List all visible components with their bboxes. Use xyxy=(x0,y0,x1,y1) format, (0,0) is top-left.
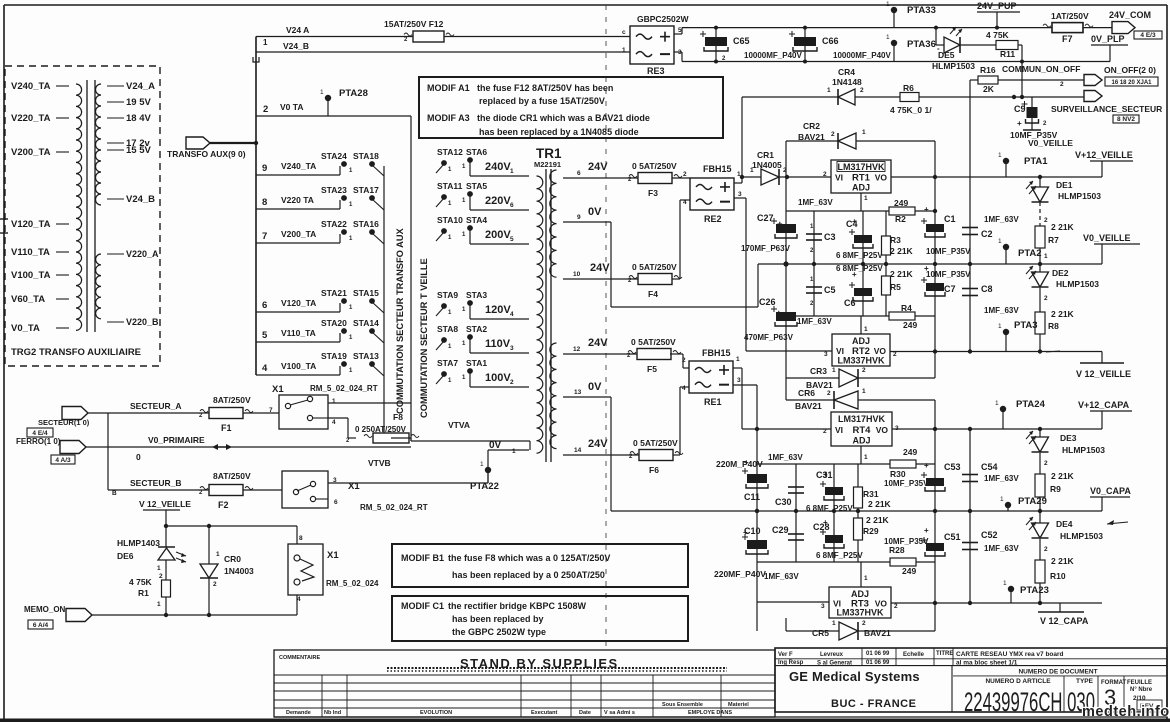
svg-text:F1: F1 xyxy=(221,423,232,433)
svg-text:1: 1 xyxy=(864,195,868,202)
svg-text:15AT/250V F12: 15AT/250V F12 xyxy=(384,19,444,29)
svg-text:10MF_P35V: 10MF_P35V xyxy=(926,247,971,256)
document number 22439976CH 030 xyxy=(964,687,1095,717)
capacitor C30 xyxy=(775,464,804,511)
switch contact STA11 STA5 tap 220V xyxy=(436,181,529,210)
wire F8 to TR1 primary bottom xyxy=(391,420,530,450)
svg-text:2: 2 xyxy=(860,87,864,94)
capacitor C66 10000MF_P40V xyxy=(789,26,891,64)
capacitor C3 1MF_63V xyxy=(798,198,836,264)
svg-text:CR3: CR3 xyxy=(810,366,827,376)
test point PTA29 xyxy=(1000,496,1047,511)
svg-text:24V: 24V xyxy=(588,438,608,450)
svg-text:2 21K: 2 21K xyxy=(890,246,914,256)
LED DE5 HLMP1503 xyxy=(932,26,975,71)
svg-text:FEUILLE: FEUILLE xyxy=(1127,680,1152,686)
svg-text:TRANSFO AUX(9 0): TRANSFO AUX(9 0) xyxy=(167,149,246,159)
svg-text:M22191: M22191 xyxy=(534,160,561,169)
svg-text:13: 13 xyxy=(574,389,582,396)
capacitor C29 xyxy=(764,511,804,581)
diode CR5 BAV21 across RT3 xyxy=(786,603,935,640)
svg-text:DE1: DE1 xyxy=(1056,180,1073,190)
svg-text:STA16: STA16 xyxy=(353,219,379,229)
REV box xyxy=(1137,700,1162,710)
svg-text:Sous Ensemble: Sous Ensemble xyxy=(662,702,703,708)
svg-text:220MF_P40V: 220MF_P40V xyxy=(714,569,766,579)
svg-text:1: 1 xyxy=(512,448,516,455)
svg-text:C26: C26 xyxy=(759,297,776,307)
fuse F7 1AT/250V xyxy=(1043,11,1093,44)
svg-text:2 21K: 2 21K xyxy=(1051,309,1075,319)
label 24V_PUP xyxy=(977,1,1020,30)
diode CR6 BAV21 xyxy=(786,378,935,429)
wire aux tap row V110_TA pin 5 xyxy=(256,328,340,342)
LED DE3 HLMP1503 xyxy=(1026,429,1105,467)
svg-text:6: 6 xyxy=(577,170,581,177)
svg-text:C65: C65 xyxy=(733,36,750,46)
transformer TRG2 dashed outline box xyxy=(5,66,160,366)
svg-text:8: 8 xyxy=(299,535,303,542)
svg-text:F6: F6 xyxy=(649,465,659,475)
svg-text:4: 4 xyxy=(682,385,686,392)
svg-text:STA19: STA19 xyxy=(321,351,347,361)
svg-text:RM_5_02_024_RT: RM_5_02_024_RT xyxy=(360,503,428,512)
switch contact STA23 STA17 xyxy=(321,185,384,210)
resistor R29 2 21K xyxy=(854,511,890,562)
tag 16 18 20 XJA1 xyxy=(1105,77,1158,86)
capacitor C2 1MF_63V xyxy=(962,80,1019,264)
svg-text:2: 2 xyxy=(1060,81,1064,88)
svg-text:2: 2 xyxy=(510,379,514,386)
connector FERRO(1 0) xyxy=(16,437,86,454)
svg-text:V200_TA: V200_TA xyxy=(281,229,316,239)
svg-text:1: 1 xyxy=(886,1,890,8)
svg-text:V24_B: V24_B xyxy=(126,194,155,205)
TR1 primary bottom tap 0V pin 1 xyxy=(488,440,529,483)
svg-text:7: 7 xyxy=(262,231,267,242)
svg-text:24V: 24V xyxy=(588,161,608,173)
svg-text:1: 1 xyxy=(157,565,161,572)
left border centre tick marks xyxy=(0,219,8,233)
svg-text:12: 12 xyxy=(573,346,581,353)
svg-text:has been replaced by a 0 250AT: has been replaced by a 0 250AT/250 xyxy=(452,570,605,580)
capacitor C28 6 8MF_P25V xyxy=(813,511,863,562)
svg-text:B: B xyxy=(112,490,117,497)
svg-text:1: 1 xyxy=(995,400,999,407)
svg-text:Nb Ind: Nb Ind xyxy=(324,710,341,716)
svg-text:STA13: STA13 xyxy=(353,351,379,361)
svg-text:SURVEILLANCE_SECTEUR: SURVEILLANCE_SECTEUR xyxy=(1051,104,1162,114)
svg-text:C1: C1 xyxy=(944,214,956,224)
label V+12_VEILLE xyxy=(1075,150,1133,177)
capacitor C31 6 8MF_P25V xyxy=(806,464,853,513)
svg-text:DE6: DE6 xyxy=(117,551,134,561)
svg-text:STA11: STA11 xyxy=(437,181,463,191)
svg-text:MODIF C1: MODIF C1 xyxy=(401,601,444,611)
svg-text:6 8MF_P25V: 6 8MF_P25V xyxy=(816,551,863,560)
svg-text:N° Nbre: N° Nbre xyxy=(1130,687,1153,693)
svg-text:6: 6 xyxy=(262,300,267,311)
svg-text:STA12: STA12 xyxy=(437,147,463,157)
svg-text:01 06 99: 01 06 99 xyxy=(866,651,890,657)
svg-text:6: 6 xyxy=(510,202,514,209)
svg-text:3: 3 xyxy=(824,351,828,358)
wire aux bus vertical xyxy=(255,37,257,376)
label V 12_VEILLE rail xyxy=(1076,352,1131,380)
svg-text:V100_TA: V100_TA xyxy=(281,361,316,371)
wire V24_B xyxy=(253,41,630,62)
svg-text:STA4: STA4 xyxy=(466,215,487,225)
wire F4 to RE2 input xyxy=(672,200,690,279)
transformer TR1 primary winding xyxy=(537,176,543,453)
wire VTVB xyxy=(328,458,488,483)
svg-text:R30: R30 xyxy=(890,469,906,479)
svg-text:+: + xyxy=(823,518,828,527)
svg-text:+: + xyxy=(1017,119,1022,128)
node R6 output junction xyxy=(1012,95,1016,99)
svg-text:RT4: RT4 xyxy=(853,425,872,436)
capacitor C51 10MF_P35V xyxy=(884,511,961,603)
svg-text:F7: F7 xyxy=(1062,34,1073,44)
TRG2 primary tap V240_TA xyxy=(11,81,69,92)
svg-text:6: 6 xyxy=(334,499,338,506)
svg-text:RE2: RE2 xyxy=(704,214,722,224)
svg-text:V120_TA: V120_TA xyxy=(11,219,51,230)
svg-text:470MF_P63V: 470MF_P63V xyxy=(744,333,794,342)
svg-text:VTVA: VTVA xyxy=(448,420,470,430)
svg-text:1: 1 xyxy=(1044,253,1048,260)
svg-text:STA22: STA22 xyxy=(321,219,347,229)
switch contact STA20 STA14 xyxy=(321,318,384,343)
node VO column junction xyxy=(933,175,937,264)
svg-text:3: 3 xyxy=(510,345,514,352)
TRG2 primary tap V120_TA xyxy=(11,219,69,230)
svg-text:1: 1 xyxy=(998,152,1002,159)
capacitor C52 1MF_63V xyxy=(962,511,1019,603)
svg-text:1MF_63V: 1MF_63V xyxy=(984,306,1019,315)
TR1 secondary tap pin 9 0V centre xyxy=(563,206,758,307)
regulator RT3 LM337HVK xyxy=(821,587,898,618)
transformer TR1 core xyxy=(546,169,551,462)
svg-text:3: 3 xyxy=(821,603,825,610)
svg-text:2: 2 xyxy=(894,603,898,610)
capacitor C9 10MF_P35V xyxy=(1010,97,1058,140)
svg-text:PTA29: PTA29 xyxy=(1018,496,1047,507)
wire RE3 plus output to 24V rail xyxy=(674,28,1119,34)
svg-text:1: 1 xyxy=(736,356,740,363)
TR1 secondary tap pin 13 0V centre xyxy=(563,381,757,511)
svg-text:4 E/4: 4 E/4 xyxy=(32,430,48,437)
label COMMUN_ON_OFF xyxy=(1002,64,1080,88)
svg-text:110V: 110V xyxy=(485,338,511,350)
svg-text:1: 1 xyxy=(750,167,754,174)
svg-text:8AT/250V: 8AT/250V xyxy=(213,395,251,405)
svg-text:2 21K: 2 21K xyxy=(866,515,890,525)
resistor R30 249 xyxy=(890,447,917,479)
svg-text:DE5: DE5 xyxy=(938,50,955,60)
wire standby lamp top rail xyxy=(164,524,303,544)
svg-text:+: + xyxy=(776,308,782,319)
switch contact STA22 STA16 xyxy=(321,219,384,244)
transformer TRG2 primary winding xyxy=(76,84,82,330)
wire RT4 ADJ line xyxy=(757,446,935,464)
transformer TR1 secondary winding lower xyxy=(550,343,557,449)
svg-text:1: 1 xyxy=(864,326,868,333)
svg-text:STA21: STA21 xyxy=(321,288,347,298)
svg-text:SECTEUR_A: SECTEUR_A xyxy=(130,401,181,411)
svg-text:1: 1 xyxy=(622,47,626,54)
svg-text:0V: 0V xyxy=(489,440,502,451)
capacitor C1 10MF_P35V xyxy=(921,205,971,256)
svg-text:ADJ: ADJ xyxy=(852,436,870,446)
svg-text:STA18: STA18 xyxy=(353,151,379,161)
svg-text:R5: R5 xyxy=(890,282,901,292)
svg-text:replaced by a fuse 15AT/250V: replaced by a fuse 15AT/250V xyxy=(479,96,605,106)
svg-text:10MF_P35V: 10MF_P35V xyxy=(926,270,971,279)
svg-text:X1: X1 xyxy=(348,481,360,492)
svg-text:C11: C11 xyxy=(744,492,760,502)
svg-text:al ma bloc sheet 1/1: al ma bloc sheet 1/1 xyxy=(956,660,1018,667)
svg-text:STA24: STA24 xyxy=(321,151,347,161)
svg-text:FERRO(1 0): FERRO(1 0) xyxy=(16,437,61,446)
capacitor C4 6 8MF_P25V xyxy=(836,211,883,264)
svg-text:ADJ: ADJ xyxy=(852,183,870,193)
title block header rows xyxy=(775,648,1167,712)
svg-text:C3: C3 xyxy=(824,232,836,242)
resistor R4 249 xyxy=(889,303,917,330)
svg-text:V 12_CAPA: V 12_CAPA xyxy=(1040,616,1089,626)
svg-text:MODIF B1: MODIF B1 xyxy=(401,553,444,563)
svg-text:MODIF A3: MODIF A3 xyxy=(427,113,470,123)
svg-text:1: 1 xyxy=(862,388,866,395)
TR1 secondary tap pin 12 24V to F5 xyxy=(563,337,637,354)
svg-text:DE3: DE3 xyxy=(1060,433,1077,443)
bridge rectifier RE1 FBH15 xyxy=(682,348,741,407)
wire V24 A into RE3 xyxy=(630,36,632,38)
svg-text:2 21K: 2 21K xyxy=(1051,222,1075,232)
svg-text:NUMERO DE DOCUMENT: NUMERO DE DOCUMENT xyxy=(1018,669,1097,676)
svg-text:1: 1 xyxy=(320,89,324,96)
svg-text:-: - xyxy=(937,44,940,53)
svg-text:C8: C8 xyxy=(981,284,993,294)
svg-text:1: 1 xyxy=(832,620,836,627)
svg-text:249: 249 xyxy=(894,198,908,208)
wire SECTEUR_A row xyxy=(88,413,279,490)
wire X1 upper contact to bus xyxy=(328,403,411,438)
regulator RT2 LM337HVK xyxy=(824,326,897,366)
svg-text:PTA23: PTA23 xyxy=(1020,585,1049,596)
wire aux tap row V240_TA pin 9 xyxy=(256,161,340,175)
connector ON_OFF(2 0) xyxy=(1084,65,1156,86)
svg-text:FBH15: FBH15 xyxy=(702,348,731,358)
LED DE4 HLMP1503 xyxy=(1026,511,1103,553)
svg-text:V+12_CAPA: V+12_CAPA xyxy=(1078,400,1130,410)
svg-text:2: 2 xyxy=(683,171,687,178)
svg-text:0V: 0V xyxy=(588,206,602,218)
svg-text:C30: C30 xyxy=(775,497,792,507)
TRG2 secondary tap 17 2v xyxy=(107,138,150,149)
wire RT2 ADJ line xyxy=(786,316,935,334)
svg-text:EMPLOYE DANS: EMPLOYE DANS xyxy=(688,710,732,716)
svg-text:4: 4 xyxy=(510,311,514,318)
capacitor C26 470MF_P63V xyxy=(744,264,832,351)
svg-text:the GBPC 2502W type: the GBPC 2502W type xyxy=(452,627,546,637)
transformer TR1 secondary winding upper xyxy=(550,170,557,277)
svg-text:249: 249 xyxy=(902,566,916,576)
svg-text:the diode CR1 which was a BAV2: the diode CR1 which was a BAV21 diode xyxy=(477,113,650,123)
svg-text:0 250AT/250V: 0 250AT/250V xyxy=(355,425,407,434)
wire RE2 minus rail down to RT2 xyxy=(734,198,832,351)
svg-text:120V: 120V xyxy=(485,304,511,316)
resistor R1 4 75K xyxy=(129,560,171,615)
svg-text:+: + xyxy=(852,217,857,226)
test point PTA24 xyxy=(995,399,1046,429)
svg-text:c: c xyxy=(622,29,626,36)
transformer TRG2 core xyxy=(87,80,95,332)
wire commutation column A common xyxy=(383,166,385,441)
TRG2 secondary tap V24_A xyxy=(107,81,155,92)
svg-text:STA8: STA8 xyxy=(437,324,458,334)
svg-text:PTA33: PTA33 xyxy=(907,5,936,16)
svg-text:249: 249 xyxy=(903,447,917,457)
bottom border band xyxy=(0,717,1170,722)
svg-text:2 21K: 2 21K xyxy=(868,499,892,509)
transformer TRG2 secondary winding upper xyxy=(96,84,102,205)
svg-text:PTA3: PTA3 xyxy=(1014,320,1038,331)
svg-text:0V: 0V xyxy=(588,381,602,393)
wire RT4 VO to V+12_CAPA rail xyxy=(892,427,1102,431)
TRG2 secondary tap 15 5V xyxy=(107,145,151,156)
test point PTA2 xyxy=(998,238,1042,264)
svg-text:16 18 20 XJA1: 16 18 20 XJA1 xyxy=(1111,80,1152,86)
annotation pen mark near DE4 xyxy=(1046,351,1128,525)
svg-text:VO: VO xyxy=(875,173,888,183)
svg-text:V0_VEILLE: V0_VEILLE xyxy=(1028,138,1073,148)
wire commutation column B common V0 TA xyxy=(410,116,412,441)
svg-text:2: 2 xyxy=(823,428,827,435)
fuse F5 0 5AT/250V xyxy=(627,337,681,374)
svg-text:COMMUTATION SECTEUR T VEILLE: COMMUTATION SECTEUR T VEILLE xyxy=(419,258,429,418)
svg-text:RE3: RE3 xyxy=(647,66,665,76)
svg-text:18 4V: 18 4V xyxy=(126,113,151,124)
svg-text:ON_OFF(2 0): ON_OFF(2 0) xyxy=(1104,65,1156,75)
wire MEMO_ON row xyxy=(92,595,297,617)
svg-text:PTA36: PTA36 xyxy=(907,39,936,50)
wire RE1 plus down to RT4 VI xyxy=(733,368,831,429)
svg-text:R8: R8 xyxy=(1048,321,1059,331)
svg-text:220V: 220V xyxy=(485,195,511,207)
svg-text:2 21K: 2 21K xyxy=(1051,471,1075,481)
svg-text:V0 TA: V0 TA xyxy=(280,102,303,112)
resistor R10 2 21K xyxy=(1035,539,1075,603)
svg-text:PTA28: PTA28 xyxy=(339,88,368,99)
svg-text:F4: F4 xyxy=(648,289,658,299)
wire CR4 R6 row xyxy=(740,97,1084,179)
svg-text:STA9: STA9 xyxy=(437,290,458,300)
tag 4 A/3 xyxy=(51,455,75,464)
reference V0_VEILLE bar at C9 xyxy=(1023,121,1073,148)
svg-text:1: 1 xyxy=(864,575,868,582)
svg-text:5: 5 xyxy=(262,330,268,341)
svg-text:Date: Date xyxy=(579,710,591,716)
resistor R9 2 21K xyxy=(1035,453,1075,511)
svg-text:R10: R10 xyxy=(1050,571,1066,581)
svg-text:1: 1 xyxy=(827,87,831,94)
label V 12_CAPA rail xyxy=(1038,603,1089,626)
svg-text:1: 1 xyxy=(480,461,484,468)
svg-text:4 75K: 4 75K xyxy=(129,577,153,587)
svg-text:R9: R9 xyxy=(1050,484,1061,494)
label 0V_PLP xyxy=(1091,34,1128,62)
TRG2 secondary tap V220_B xyxy=(107,317,159,327)
resistor R6 4 75K_0 1/ xyxy=(890,83,932,115)
svg-text:2: 2 xyxy=(1044,546,1048,553)
svg-text:200V: 200V xyxy=(485,229,511,241)
resistor R5 2 21K xyxy=(882,264,914,316)
switch contact STA19 STA13 xyxy=(321,351,384,376)
svg-text:STA6: STA6 xyxy=(466,147,487,157)
svg-text:Demande: Demande xyxy=(286,710,311,716)
svg-text:1: 1 xyxy=(998,238,1002,245)
wire F6 to RE1 input xyxy=(673,387,689,455)
fuse F12 15AT/250V xyxy=(384,19,454,43)
svg-text:R11: R11 xyxy=(1000,49,1015,59)
svg-text:VO: VO xyxy=(874,346,887,356)
svg-text:1: 1 xyxy=(263,38,268,47)
tag 4 E/4 xyxy=(27,428,53,437)
svg-text:V0_PRIMAIRE: V0_PRIMAIRE xyxy=(148,435,205,445)
fuse F6 0 5AT/250V xyxy=(629,438,683,475)
note box MODIF A1 A3 xyxy=(419,77,723,138)
wire aux tap row V220 TA pin 8 xyxy=(256,195,340,209)
svg-text:24V: 24V xyxy=(590,262,610,274)
svg-text:19 5V: 19 5V xyxy=(126,97,151,108)
switch contact STA24 STA18 xyxy=(321,151,384,176)
svg-text:3: 3 xyxy=(737,377,741,384)
TRG2 secondary tap V220_A xyxy=(107,249,159,259)
svg-text:X1: X1 xyxy=(327,550,339,561)
svg-text:1: 1 xyxy=(832,367,836,374)
svg-text:V+12_VEILLE: V+12_VEILLE xyxy=(1075,150,1133,160)
svg-text:4: 4 xyxy=(683,199,687,206)
svg-text:R7: R7 xyxy=(1048,235,1059,245)
bridge rectifier RE3 GBPC2502W xyxy=(622,14,689,76)
svg-text:V200_TA: V200_TA xyxy=(11,147,51,158)
svg-text:1: 1 xyxy=(1003,580,1007,587)
svg-text:1N4003: 1N4003 xyxy=(224,566,254,576)
TRG2 primary tap V0_TA xyxy=(11,323,69,334)
svg-text:R31: R31 xyxy=(863,489,879,499)
svg-text:10000MF_P40V: 10000MF_P40V xyxy=(744,51,802,60)
svg-text:LM337HVK: LM337HVK xyxy=(836,608,884,618)
svg-text:2 21K: 2 21K xyxy=(1051,556,1075,566)
svg-text:PTA2: PTA2 xyxy=(1018,248,1042,259)
svg-text:1MF_63V: 1MF_63V xyxy=(764,572,799,581)
svg-text:VI: VI xyxy=(835,173,843,183)
relay contact X1 RM_5_02_024_RT lower xyxy=(282,471,428,512)
diode CR3 BAV21 across RT2 xyxy=(786,351,935,390)
svg-text:15 5V: 15 5V xyxy=(126,145,151,156)
fuse F8 0 250AT/250V xyxy=(346,412,419,444)
svg-text:10000MF_P40V: 10000MF_P40V xyxy=(833,51,891,60)
svg-text:100V: 100V xyxy=(485,372,511,384)
regulator RT1 LM317HVK xyxy=(823,160,891,202)
svg-text:the rectifier bridge KBPC 1508: the rectifier bridge KBPC 1508W xyxy=(448,601,587,611)
diode CR1 1N4005 xyxy=(750,150,831,185)
svg-text:LM337HVK: LM337HVK xyxy=(837,356,885,366)
svg-text:Ing Resp: Ing Resp xyxy=(778,660,804,666)
svg-text:0: 0 xyxy=(136,452,141,462)
